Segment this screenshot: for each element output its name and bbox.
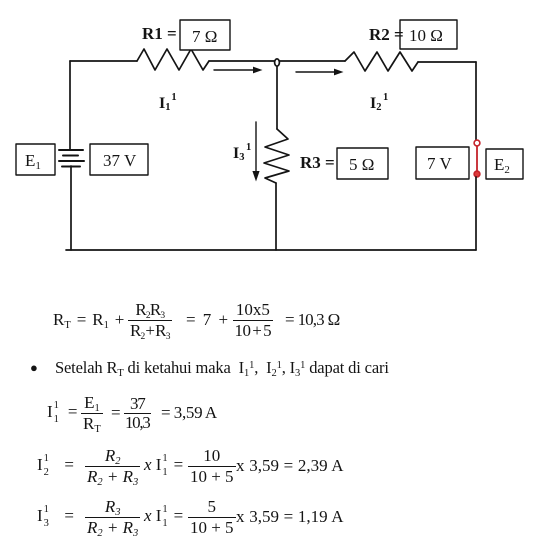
- wire top-left horizontal: [70, 60, 137, 62]
- svg-text:10 Ω: 10 Ω: [409, 26, 443, 45]
- wire middle vertical lower: [275, 183, 277, 250]
- wire top-right horizontal: [418, 61, 476, 63]
- label box E2: [486, 149, 523, 179]
- svg-text:37 V: 37 V: [103, 151, 137, 170]
- svg-text:I11: I11: [159, 92, 177, 113]
- wire left vertical upper: [69, 61, 71, 150]
- value box R3: [337, 148, 388, 179]
- svg-text:5 Ω: 5 Ω: [349, 155, 374, 174]
- node A junction circle: [275, 59, 280, 66]
- battery E2 red link: [476, 146, 478, 171]
- formula row I3: [37, 497, 344, 537]
- label box E1: [16, 144, 55, 175]
- wire left vertical lower: [70, 166, 72, 250]
- node E2 top terminal: [474, 140, 480, 146]
- svg-text:7 Ω: 7 Ω: [192, 27, 217, 46]
- svg-text:R1 =: R1 =: [142, 24, 177, 43]
- formula row I1: [47, 393, 217, 433]
- svg-text:I31: I31: [233, 142, 251, 163]
- wire middle vertical upper: [276, 63, 278, 129]
- svg-text:R3 =: R3 =: [300, 153, 335, 172]
- resistor R3 zigzag: [264, 129, 289, 183]
- value box R2: [400, 20, 457, 49]
- circuit schematic SVG: [0, 0, 538, 270]
- value box 7V: [416, 147, 469, 179]
- svg-text:7 V: 7 V: [427, 154, 452, 173]
- value box R1: [180, 20, 230, 50]
- wire right vertical upper: [475, 62, 477, 140]
- wire bottom horizontal: [66, 249, 476, 251]
- current arrow I2: [296, 71, 334, 73]
- svg-text:I21: I21: [370, 92, 388, 113]
- resistor R1 zigzag: [137, 49, 209, 70]
- formula row I2: [37, 446, 344, 486]
- wire right vertical lower: [475, 177, 477, 250]
- svg-text:R2 =: R2 =: [369, 25, 404, 44]
- formula row RT: [52, 300, 339, 340]
- current arrow I3: [255, 122, 257, 171]
- value box 37V: [90, 144, 148, 175]
- wire top middle: [209, 60, 345, 62]
- node E2 bottom terminal: [474, 171, 480, 177]
- battery E1 plates: [59, 149, 83, 151]
- bullet line: [28, 358, 389, 378]
- resistor R2 zigzag: [345, 52, 418, 71]
- current arrow I1: [214, 69, 253, 71]
